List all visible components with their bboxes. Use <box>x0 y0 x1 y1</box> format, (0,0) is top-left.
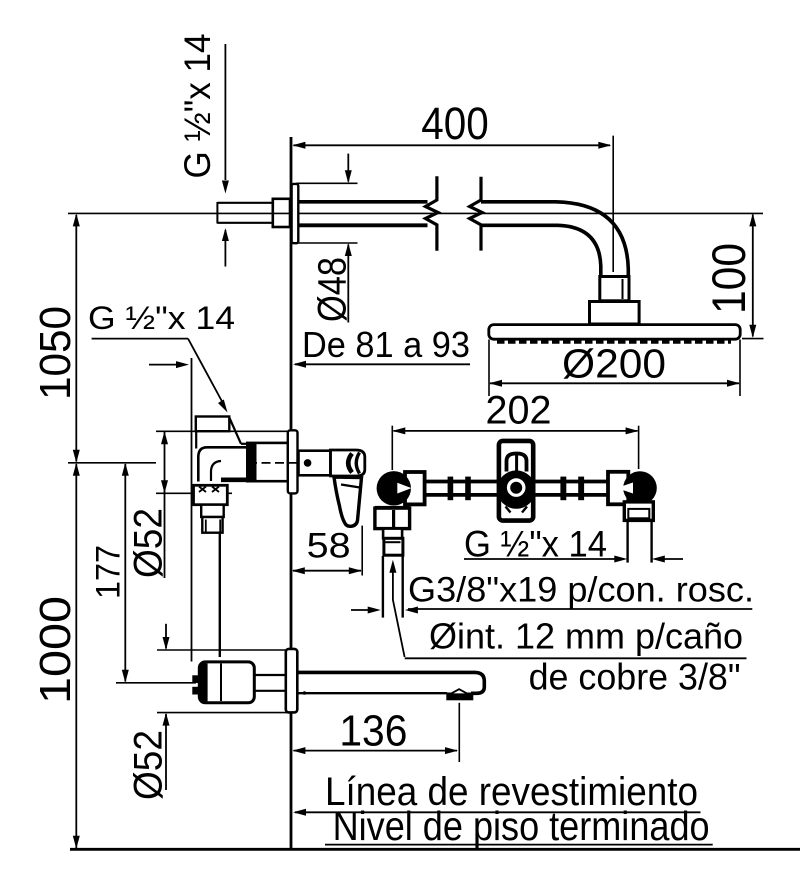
spout to wall connector <box>254 675 286 691</box>
spout valve body <box>199 662 254 703</box>
label G 1/2 x 14 (top, rotated) with leader <box>177 34 229 267</box>
svg-text:100: 100 <box>702 243 755 314</box>
mixer stem <box>299 451 331 476</box>
shower arm nut <box>273 199 290 227</box>
pipe break symbol 2 <box>470 177 483 251</box>
dimension upper diameter 52 <box>127 431 289 578</box>
dimension lower diameter 52 <box>127 624 289 800</box>
dimension 1050 <box>31 213 80 462</box>
node: mounting depth reference line <box>191 358 193 662</box>
shower arm threaded stub (left of wall) <box>217 202 273 224</box>
dimension 58 <box>292 526 362 576</box>
svg-text:De 81 a 93: De 81 a 93 <box>302 324 470 365</box>
wire: down pipe mixer to spout <box>219 533 221 657</box>
manifold right union nut <box>624 502 653 521</box>
manifold thread rings <box>448 477 585 501</box>
shower arm elbow (curved drop) <box>481 202 628 277</box>
svg-text:1000: 1000 <box>31 596 80 704</box>
svg-text:136: 136 <box>339 707 407 756</box>
shower arm wall flange <box>292 184 299 243</box>
svg-text:400: 400 <box>421 98 489 149</box>
svg-text:177: 177 <box>90 545 128 599</box>
label Linea de revestimiento <box>293 770 701 816</box>
shower head disc <box>489 325 740 340</box>
label G 1/2 x 14 (manifold) with arrows to outlet stub <box>464 524 683 565</box>
svg-text:G3/8"x19 p/con. rosc.: G3/8"x19 p/con. rosc. <box>408 571 754 610</box>
label G 1/2 x 14 (mixer) with leader <box>88 300 235 413</box>
manifold pipe bands <box>425 482 608 495</box>
dimension diameter 48 (arm flange) <box>297 154 358 323</box>
label G3/8x19 with arrows to inlet pipe <box>351 571 754 614</box>
svg-text:202: 202 <box>486 389 552 433</box>
manifold left ball joint <box>377 471 412 505</box>
mixer centerline (dashed) <box>248 462 362 464</box>
shower arm pipe (right of wall, to first break) <box>298 202 427 226</box>
svg-text:Øint. 12 mm p/caño: Øint. 12 mm p/caño <box>429 616 743 657</box>
dimension 177 <box>90 463 197 683</box>
mixer handle hub <box>331 450 365 476</box>
dimension 1000 <box>31 463 80 849</box>
dimension 100 (right side) <box>702 213 764 338</box>
dimension diameter 200 (shower head) <box>489 340 740 397</box>
svg-text:G ½"x 14: G ½"x 14 <box>177 34 218 179</box>
dimension 400 <box>292 98 613 272</box>
mixer body cylinder <box>247 443 288 481</box>
wire: manifold right outlet stub <box>628 520 652 562</box>
mixer handle lever <box>334 477 362 526</box>
wire: manifold left inlet pipe <box>383 556 403 618</box>
mixer outlet reducer <box>201 505 224 517</box>
mixer inlet elbow <box>196 431 248 481</box>
svg-text:58: 58 <box>307 527 351 566</box>
svg-text:G ½"x 14: G ½"x 14 <box>88 300 235 336</box>
spout wall flange <box>286 649 298 713</box>
manifold left union square <box>405 472 425 504</box>
svg-text:de cobre 3/8": de cobre 3/8" <box>529 657 741 698</box>
elbow connector nut <box>600 277 629 301</box>
mixer wall flange <box>288 430 298 493</box>
svg-text:Ø52: Ø52 <box>127 730 171 800</box>
svg-text:Nivel de piso terminado: Nivel de piso terminado <box>333 803 710 849</box>
dimension 202 (manifold) <box>392 389 638 471</box>
mixer lower nut with thread marks <box>194 485 228 504</box>
spout thread nubs <box>192 675 199 694</box>
svg-text:Ø52: Ø52 <box>127 508 171 578</box>
dimension 136 (spout) <box>292 703 459 762</box>
svg-text:Ø200: Ø200 <box>562 341 666 387</box>
manifold center tee <box>497 441 535 521</box>
pipe break symbol 1 <box>426 176 439 251</box>
manifold right union square <box>608 472 628 505</box>
manifold left union nut <box>375 506 410 529</box>
mixer mounting bracket <box>196 417 241 444</box>
shower head nozzles <box>497 340 731 344</box>
wall line (finished wall / revestimiento plane) <box>290 137 293 849</box>
manifold right ball joint <box>617 471 657 505</box>
node: reference line at mixer centerline <box>68 462 156 464</box>
svg-text:Ø48: Ø48 <box>311 257 355 322</box>
shower head mounting base <box>590 302 640 325</box>
label Oint 12mm with leader arrow up into pipe <box>389 560 746 659</box>
spout tube <box>297 672 484 693</box>
label De 81 a 93 with arrow to wall <box>293 324 470 368</box>
svg-text:1050: 1050 <box>31 306 80 400</box>
depth arrow (left of wall, points at mounting plane) <box>149 361 189 368</box>
wire: shower-arm centerline y=213 <box>68 212 763 214</box>
manifold left nipple <box>384 538 403 555</box>
mixer outlet block <box>202 517 222 533</box>
manifold left reducer <box>383 529 402 539</box>
floor line (nivel de piso) <box>70 848 800 851</box>
node: spout drain dot <box>303 691 307 695</box>
spout aerator tip <box>446 689 473 700</box>
label Nivel de piso terminado <box>325 803 713 849</box>
